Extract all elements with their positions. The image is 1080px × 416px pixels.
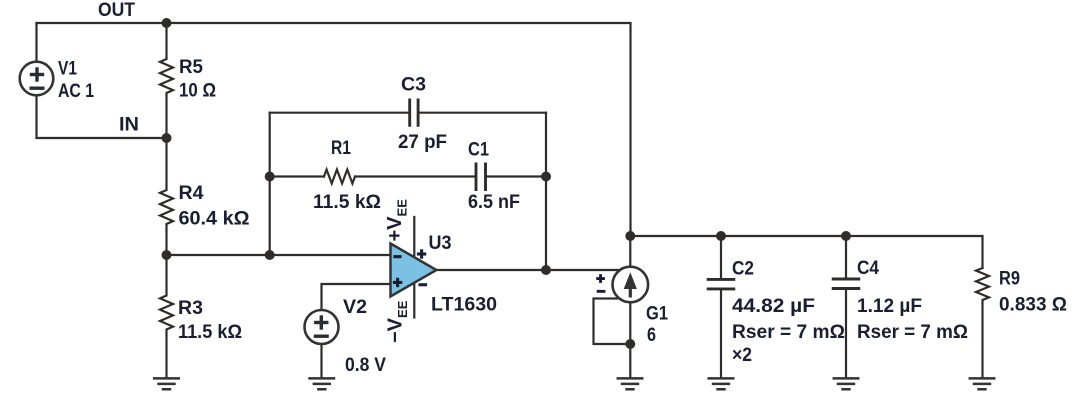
svg-text:10 Ω: 10 Ω <box>179 80 216 102</box>
junction node OUT/R5 <box>162 18 172 28</box>
svg-text:R1: R1 <box>331 137 351 159</box>
op-amp negative supply marker <box>419 283 428 286</box>
capacitor C2 <box>708 279 734 289</box>
svg-text:44.82 µF: 44.82 µF <box>732 295 815 317</box>
resistor R3 <box>160 255 173 378</box>
capacitor C3 <box>410 100 418 125</box>
wire right rail to R9 <box>631 236 983 268</box>
svg-text:27 pF: 27 pF <box>398 131 447 153</box>
op-amp U3 <box>391 244 437 297</box>
svg-text:LT1630: LT1630 <box>431 294 497 316</box>
svg-text:OUT: OUT <box>98 0 135 21</box>
wire feedback loop left vertical <box>269 113 271 255</box>
G1 control plus marker <box>596 274 605 283</box>
svg-text:R5: R5 <box>179 56 203 78</box>
wire op-amp noninverting input from V2 <box>322 284 391 310</box>
svg-text:V1: V1 <box>58 58 77 80</box>
wire mid rail to op-amp inverting input <box>167 254 391 256</box>
svg-text:G1: G1 <box>646 303 668 325</box>
wire V1 bottom to IN rail <box>37 95 167 138</box>
svg-text:AC 1: AC 1 <box>58 80 94 102</box>
resistor R9 <box>976 268 989 378</box>
op-amp noninverting input marker <box>393 278 402 287</box>
svg-text:11.5 kΩ: 11.5 kΩ <box>313 191 381 213</box>
capacitor C4 <box>833 279 859 289</box>
svg-text:R3: R3 <box>178 297 203 319</box>
junction C2 top <box>716 231 726 241</box>
resistor R5 <box>160 23 173 138</box>
ground R9 <box>969 378 996 389</box>
svg-text:C2: C2 <box>732 258 754 280</box>
junction G1 top <box>625 231 635 241</box>
junction G1 bottom <box>625 339 635 349</box>
ground G1 <box>617 378 644 389</box>
svg-text:R4: R4 <box>179 182 204 204</box>
resistor R1 <box>324 170 355 184</box>
svg-text:6: 6 <box>647 324 656 346</box>
op-amp inverting input marker <box>393 255 401 258</box>
junction R4/R3 mid rail <box>162 250 172 260</box>
junction op-amp output / feedback <box>541 265 551 275</box>
wire G1 top lead <box>629 236 631 267</box>
ground R3 <box>153 378 180 389</box>
wire V2 bottom lead <box>320 344 322 378</box>
svg-text:6.5 nF: 6.5 nF <box>468 191 520 213</box>
wire top OUT rail <box>37 23 631 236</box>
wire C2 bottom lead <box>720 289 722 378</box>
voltage source V1 <box>20 62 54 96</box>
svg-text:60.4 kΩ: 60.4 kΩ <box>179 208 250 230</box>
voltage source V2 <box>305 310 339 344</box>
wire R1 to C1 <box>355 175 475 177</box>
wire feedback top rail right of C3 <box>420 112 547 114</box>
junction mid rail / feedback left <box>265 250 275 260</box>
svg-text:Rser = 7 mΩ: Rser = 7 mΩ <box>857 321 968 343</box>
svg-text:C1: C1 <box>468 139 489 161</box>
svg-text:C4: C4 <box>857 257 879 279</box>
junction feedback left / R1 row <box>265 172 275 182</box>
wire feedback right vertical <box>545 113 547 270</box>
junction C4 top <box>841 231 851 241</box>
svg-text:V2: V2 <box>343 296 367 318</box>
wire C1 right <box>486 175 547 177</box>
wire op-amp output <box>437 269 621 271</box>
svg-text:C3: C3 <box>401 74 426 96</box>
wire feedback top rail left of C3 <box>270 112 409 114</box>
op-amp positive supply marker <box>417 249 426 258</box>
wire C2 top lead <box>720 236 722 279</box>
current source G1 <box>613 267 649 303</box>
wire op-amp power line <box>413 217 415 318</box>
ground C4 <box>833 378 860 389</box>
svg-text:IN: IN <box>119 114 139 136</box>
svg-text:1.12 µF: 1.12 µF <box>857 295 922 317</box>
capacitor C1 <box>476 164 486 190</box>
wire G1 bottom lead <box>629 302 631 377</box>
svg-text:0.833 Ω: 0.833 Ω <box>999 294 1067 316</box>
wire G1 control loop <box>594 299 631 345</box>
svg-text:11.5 kΩ: 11.5 kΩ <box>178 321 242 343</box>
svg-text:Rser = 7 mΩ: Rser = 7 mΩ <box>732 321 845 343</box>
wire R1/C1 row left <box>270 175 324 177</box>
svg-text:U3: U3 <box>429 232 452 254</box>
wire V1 top lead <box>35 23 37 62</box>
svg-text:×2: ×2 <box>732 344 752 366</box>
svg-text:R9: R9 <box>999 268 1020 290</box>
wire C4 bottom lead <box>845 289 847 378</box>
junction node IN <box>162 133 172 143</box>
svg-text:0.8 V: 0.8 V <box>345 354 386 376</box>
ground C2 <box>708 378 735 389</box>
G1 control minus marker <box>597 290 606 293</box>
ground V2 <box>308 378 335 389</box>
junction C1 right / feedback right <box>541 172 551 182</box>
wire C4 top lead <box>845 236 847 279</box>
resistor R4 <box>160 138 173 255</box>
